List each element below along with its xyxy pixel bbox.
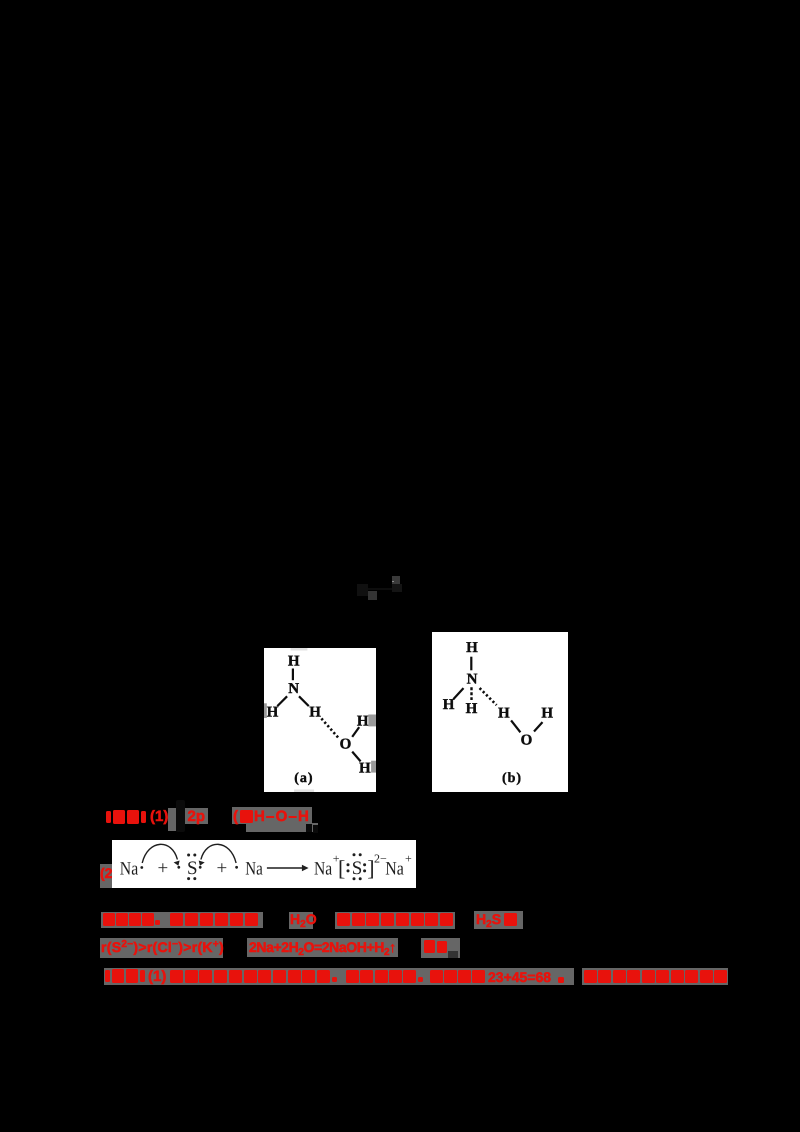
wire N-H top bond bbox=[470, 657, 472, 671]
svg-text:H: H bbox=[466, 640, 478, 656]
wire O-H bond bbox=[534, 722, 543, 731]
svg-text:H: H bbox=[466, 701, 478, 717]
svg-text:H: H bbox=[309, 705, 321, 721]
wire H-O bond bbox=[511, 720, 520, 732]
figure (a) white panel bbox=[264, 648, 376, 792]
faint figure fragment top bbox=[357, 584, 368, 596]
svg-text:H: H bbox=[267, 705, 279, 721]
svg-text:H: H bbox=[498, 706, 510, 722]
electron transfer arrow 2 bbox=[235, 866, 238, 869]
svg-text:H: H bbox=[357, 713, 369, 729]
edge artifacts bbox=[264, 703, 267, 718]
svg-text:H: H bbox=[359, 761, 371, 777]
svg-text:H: H bbox=[288, 654, 300, 670]
wire N-H top bond bbox=[292, 669, 294, 681]
hydrogen bond dotted bbox=[321, 719, 338, 738]
svg-text:S: S bbox=[352, 858, 363, 879]
svg-text:O: O bbox=[340, 737, 352, 753]
svg-text:+: + bbox=[217, 858, 228, 879]
svg-text:+: + bbox=[158, 858, 169, 879]
hydrogen bond dotted bbox=[480, 688, 497, 705]
svg-text:(b): (b) bbox=[502, 771, 522, 786]
wire O-H lower bond bbox=[352, 752, 360, 762]
answer line 5 bbox=[104, 968, 574, 985]
svg-text:Na: Na bbox=[120, 858, 139, 879]
wire N-H left bond bbox=[277, 696, 287, 706]
svg-text:H: H bbox=[541, 706, 553, 722]
wire N-H below dashed bond bbox=[470, 687, 472, 700]
answer line 1 bbox=[168, 808, 176, 832]
answer line 3 bbox=[101, 912, 263, 928]
wire O-H upper bond bbox=[352, 727, 359, 737]
svg-text:Na: Na bbox=[314, 858, 333, 879]
svg-text:Na: Na bbox=[385, 858, 404, 879]
svg-text:+: + bbox=[405, 852, 412, 866]
svg-text:S: S bbox=[187, 858, 198, 879]
wire N-H mid bond bbox=[299, 696, 309, 706]
answer line 4 bbox=[100, 938, 223, 958]
svg-text:[: [ bbox=[338, 856, 345, 881]
yields arrow bbox=[267, 867, 306, 869]
svg-text:Na: Na bbox=[245, 858, 263, 879]
svg-text:(a): (a) bbox=[294, 771, 313, 786]
figure (b) white panel bbox=[432, 632, 568, 792]
S with electron dots bbox=[177, 866, 180, 869]
svg-text:N: N bbox=[467, 672, 478, 688]
svg-text:N: N bbox=[288, 681, 299, 697]
svg-text:O: O bbox=[521, 732, 533, 748]
reaction white panel bbox=[112, 840, 416, 888]
answer item (2) label bbox=[100, 864, 112, 888]
electron transfer arrow 1 bbox=[142, 844, 177, 863]
wire N-H left bond bbox=[453, 688, 463, 699]
svg-text:H: H bbox=[443, 697, 455, 713]
